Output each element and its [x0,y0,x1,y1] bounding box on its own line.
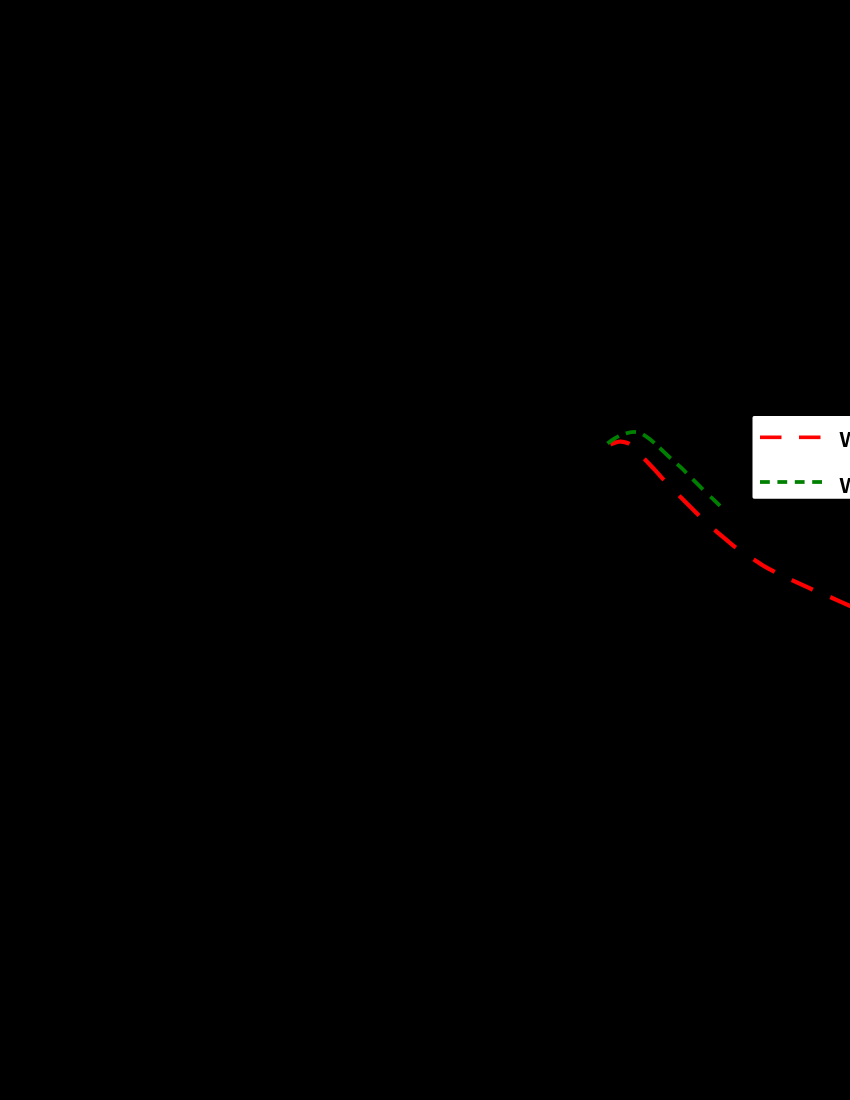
legend label W (row 2) [840,478,850,493]
legend label W (row 1) [840,432,850,447]
legend green dashed sample [760,480,823,484]
legend box [753,416,850,499]
green dotted curve [608,432,721,506]
legend red dashed sample [760,435,821,439]
red dashed curve [611,442,850,607]
